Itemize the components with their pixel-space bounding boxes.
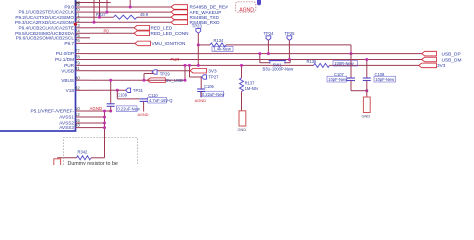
svg-text:VBUS: VBUS: [61, 78, 74, 83]
svg-text:R342: R342: [78, 149, 89, 154]
svg-text:1.4k-New: 1.4k-New: [214, 47, 231, 52]
svg-text:GND: GND: [238, 127, 247, 132]
svg-text:82: 82: [75, 85, 80, 90]
svg-text:AGND: AGND: [195, 98, 207, 103]
svg-text:P9.6/UCB2SOMI/UCB2SCL: P9.6/UCB2SOMI/UCB2SCL: [16, 35, 75, 40]
svg-text:P9.4/UCB2CLK/UCA2STE: P9.4/UCB2CLK/UCA2STE: [19, 25, 75, 30]
svg-text:USB_DP: USB_DP: [442, 51, 461, 57]
svg-text:AGND: AGND: [138, 113, 149, 117]
svg-text:VMU_IGNITION: VMU_IGNITION: [152, 41, 186, 46]
svg-text:Dummy resistor to be: Dummy resistor to be: [68, 161, 118, 165]
svg-text:TP31: TP31: [133, 88, 144, 93]
svg-text:80: 80: [75, 75, 80, 80]
svg-text:77: 77: [75, 49, 80, 54]
svg-text:PUR: PUR: [171, 57, 180, 62]
svg-text:V18: V18: [66, 88, 75, 93]
svg-text:TP27: TP27: [209, 75, 220, 80]
svg-text:0.22uF-New: 0.22uF-New: [202, 92, 224, 97]
svg-text:5V_USB: 5V_USB: [166, 78, 183, 83]
svg-text:RED_LED_CONN: RED_LED_CONN: [151, 31, 189, 36]
svg-text:PU.0/DP: PU.0/DP: [56, 51, 74, 56]
svg-text:1M-50v: 1M-50v: [245, 86, 260, 91]
svg-text:GND: GND: [362, 114, 371, 119]
svg-text:R137: R137: [245, 80, 256, 85]
svg-text:R136: R136: [307, 59, 318, 64]
svg-text:79: 79: [75, 61, 80, 66]
svg-text:P9.3/UCA2RXD/UCA2SOMI: P9.3/UCA2RXD/UCA2SOMI: [15, 20, 74, 25]
svg-text:AVSS3: AVSS3: [59, 125, 74, 130]
svg-text:PUR: PUR: [64, 63, 75, 68]
svg-text:0.22uF-New: 0.22uF-New: [118, 106, 140, 111]
svg-text:B3U-1000P-New: B3U-1000P-New: [263, 66, 294, 71]
svg-text:RED_LED: RED_LED: [151, 26, 173, 31]
svg-text:P0: P0: [104, 28, 110, 33]
svg-text:AGND: AGND: [239, 7, 254, 13]
svg-text:C106: C106: [204, 84, 215, 89]
svg-text:93: 93: [75, 123, 80, 128]
svg-text:81: 81: [75, 66, 80, 71]
svg-text:AGND: AGND: [90, 106, 103, 111]
svg-text:78: 78: [75, 55, 80, 60]
svg-text:10: 10: [75, 106, 80, 111]
svg-text:49.9: 49.9: [140, 12, 149, 17]
svg-text:C109: C109: [117, 93, 128, 98]
svg-text:3V3: 3V3: [437, 63, 446, 68]
svg-text:TP29: TP29: [160, 71, 171, 76]
svg-text:10pF-New: 10pF-New: [328, 77, 347, 82]
svg-text:4.7uF-16V-Q: 4.7uF-16V-Q: [149, 98, 172, 103]
svg-text:AVSS1: AVSS1: [59, 115, 74, 120]
svg-text:TP23: TP23: [192, 24, 203, 29]
svg-text:3V3: 3V3: [208, 68, 217, 73]
svg-text:R134: R134: [214, 38, 225, 43]
svg-text:10pF-New: 10pF-New: [375, 77, 394, 82]
svg-text:P9.7: P9.7: [64, 41, 74, 46]
svg-text:R337: R337: [96, 12, 107, 17]
svg-text:P5.1/VREF-/VEREF-: P5.1/VREF-/VEREF-: [31, 109, 75, 114]
svg-text:PU.1/DM: PU.1/DM: [55, 57, 74, 62]
svg-text:76: 76: [75, 38, 80, 43]
svg-text:VUSB: VUSB: [61, 68, 74, 73]
svg-text:72: 72: [75, 17, 80, 22]
svg-text:12: 12: [75, 112, 80, 117]
